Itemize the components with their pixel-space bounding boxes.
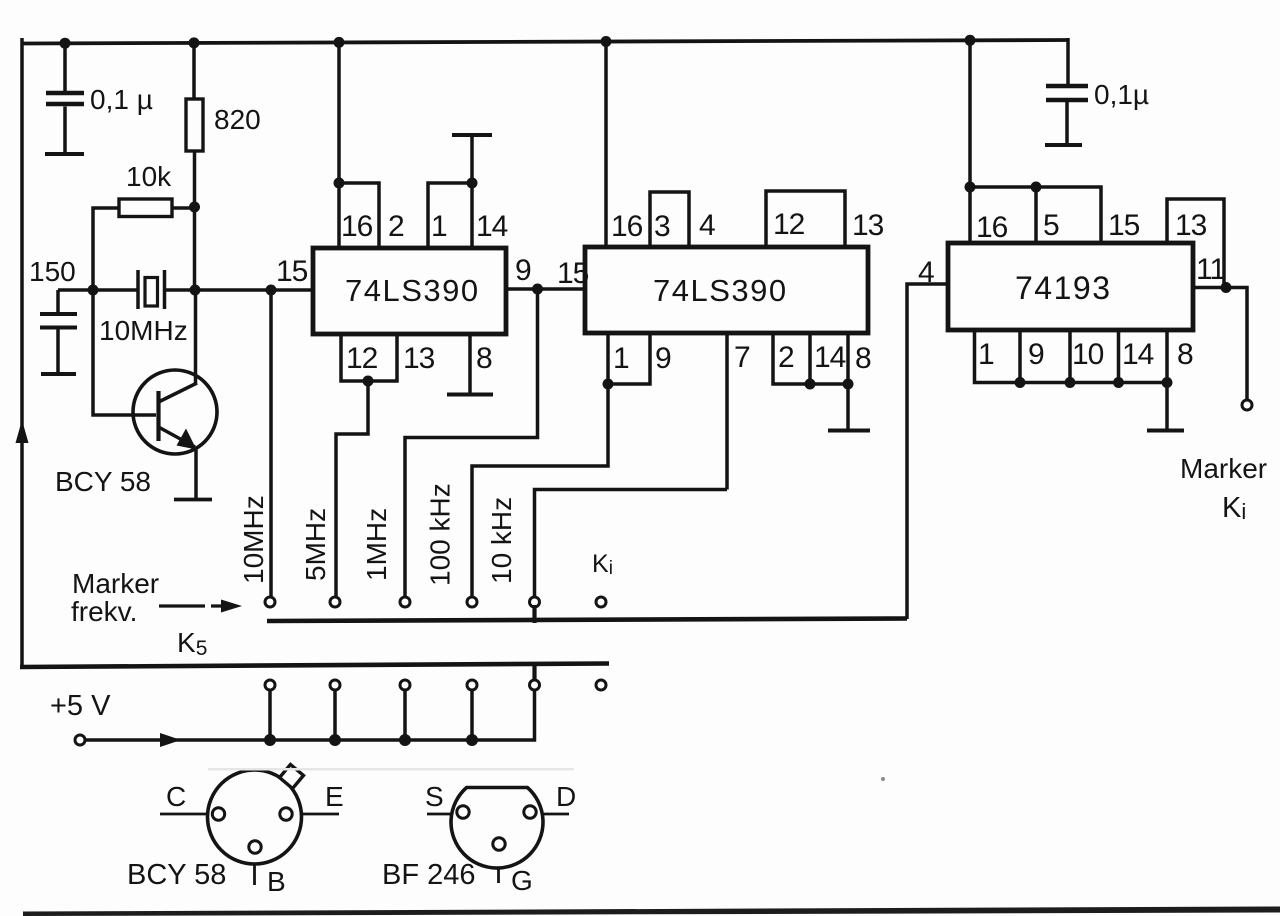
lead C [160, 813, 208, 816]
terminal circle row2 p2 [330, 680, 340, 690]
capacitor C2 150 [40, 290, 77, 374]
transistor case BF246 outline [451, 788, 543, 869]
node U3 pin9 dot [1015, 377, 1026, 388]
wire U2 pin12-pin13 loop [766, 191, 845, 247]
svg-text:9: 9 [515, 254, 531, 287]
svg-text:0,1 µ: 0,1 µ [90, 84, 153, 115]
scan noise smudge [208, 768, 574, 771]
node osc dot A [88, 285, 99, 296]
wire U1 pin8 [468, 334, 472, 393]
ground Q1 emitter [174, 498, 212, 502]
svg-text:2: 2 [388, 210, 404, 243]
terminal circle row2 p3 [400, 680, 410, 690]
svg-text:10MHz: 10MHz [238, 495, 269, 584]
rail bar above U1 pin14 [452, 133, 492, 137]
stub p1 [268, 690, 272, 740]
svg-text:16: 16 [976, 211, 1008, 244]
wire U3 pin13 loop [1167, 199, 1224, 288]
lead B [253, 864, 256, 885]
pad S [457, 806, 469, 818]
svg-text:10 kHz: 10 kHz [486, 497, 517, 584]
wire U2 pin3-pin4 loop [650, 192, 689, 247]
terminal circle 10MHz [265, 597, 275, 607]
wire U3 pin4 from K5 bus [907, 284, 948, 619]
svg-text:13: 13 [403, 342, 435, 375]
node U3 pin10 dot [1065, 377, 1076, 388]
node top rail dot 4 [601, 36, 612, 47]
wire U1 pin16-pin2 loop [339, 183, 379, 248]
node top rail dot 1 [60, 38, 71, 49]
node U3 pin16 dot [965, 182, 976, 193]
resistor R1 820 [186, 42, 203, 290]
svg-text:10MHz: 10MHz [99, 315, 188, 346]
terminal circle row2 p4 [467, 680, 477, 690]
svg-text:74LS390: 74LS390 [653, 273, 788, 308]
terminal +5V input circle [75, 735, 85, 745]
pad G [493, 838, 505, 850]
capacitor C3 0,1u right [1045, 38, 1088, 145]
pad E [280, 808, 292, 820]
node osc dot C [266, 285, 277, 296]
stub bus lower to +5V terminal [532, 664, 536, 681]
svg-text:100 kHz: 100 kHz [425, 483, 456, 586]
wire +5V rail [85, 690, 535, 740]
bus K5 upper (marker bus) [267, 619, 907, 622]
stub p4 [470, 690, 474, 740]
stub p3 [403, 690, 407, 740]
svg-text:150: 150 [29, 256, 76, 287]
node U2 pin14 dot [805, 379, 816, 390]
node top rail dot 5 [965, 35, 976, 46]
svg-text:9: 9 [655, 342, 671, 375]
bus lower [20, 664, 609, 668]
svg-text:15: 15 [557, 257, 589, 290]
svg-text:4: 4 [699, 209, 715, 242]
terminal circle row2 p6 [596, 680, 606, 690]
svg-text:1: 1 [613, 342, 629, 375]
wire U1 pin9 to U2 pin15 [506, 287, 585, 291]
wire U3 pin11 out [1193, 288, 1247, 401]
scan speck [881, 777, 885, 781]
node top rail dot 2 [189, 37, 200, 48]
wire U1 pin16 supply drop [337, 42, 341, 248]
wire 5MHz route [336, 381, 368, 598]
terminal circle 100kHz [467, 597, 477, 607]
svg-text:1: 1 [978, 338, 994, 371]
wire 10kHz route [535, 490, 728, 598]
svg-text:16: 16 [341, 210, 373, 243]
node U3 pin11 dot [1221, 282, 1232, 293]
svg-text:13: 13 [1175, 209, 1207, 242]
pad D [524, 806, 536, 818]
terminal circle row2 p1 [265, 680, 275, 690]
lead S [427, 813, 451, 816]
wire 10MHz column [269, 290, 273, 598]
arrow marker frekv [159, 604, 221, 607]
svg-text:15: 15 [276, 255, 308, 288]
IC U3 74193 body [948, 243, 1193, 330]
IC U2 74LS390 body [585, 247, 868, 333]
pad C [212, 808, 224, 820]
svg-text:frekv.: frekv. [71, 596, 137, 627]
svg-text:G: G [511, 865, 533, 896]
wire U3 pin16-pin5 loop [970, 187, 1036, 243]
terminal circle 10kHz [530, 597, 540, 607]
svg-text:8: 8 [1177, 338, 1193, 371]
transistor case BCY58 tab [280, 765, 304, 789]
bottom scan bar [23, 907, 1280, 916]
svg-text:11: 11 [1196, 253, 1225, 286]
node U3 pin5 dot [1031, 182, 1042, 193]
svg-text:12: 12 [346, 342, 378, 375]
svg-text:13: 13 [852, 209, 884, 242]
node U2 pin8 dot [843, 379, 854, 390]
svg-text:E: E [325, 781, 344, 812]
terminal circle 1MHz [400, 597, 410, 607]
svg-text:Marker: Marker [72, 568, 159, 599]
wire U1 pin1-pin14 loop [428, 183, 472, 248]
terminal circle 5MHz [330, 597, 340, 607]
stub p2 [333, 690, 337, 740]
svg-text:8: 8 [855, 342, 871, 375]
svg-text:10k: 10k [126, 161, 172, 192]
svg-text:3: 3 [654, 210, 670, 243]
wire top +5V rail [22, 40, 1068, 44]
transistor case BCY58 outline [208, 770, 302, 864]
svg-text:15: 15 [1108, 209, 1140, 242]
transistor Q1 BCY58 [133, 370, 217, 454]
wire emitter [194, 447, 198, 498]
lead D [543, 813, 569, 816]
svg-text:Marker: Marker [1180, 453, 1267, 484]
svg-text:10: 10 [1072, 338, 1104, 371]
ground U2 pin8 [828, 429, 870, 433]
arrow +5V [160, 733, 181, 747]
svg-text:14: 14 [814, 341, 846, 374]
svg-text:9: 9 [1028, 338, 1044, 371]
svg-text:74LS390: 74LS390 [345, 273, 480, 308]
node U2 pin1 loop dot [603, 379, 614, 390]
ground U1 pin8 [447, 393, 493, 397]
svg-text:8: 8 [476, 342, 492, 375]
wire U2 pin8 ground drop [846, 384, 850, 429]
wire U3 pin5-pin15 loop [1036, 187, 1101, 243]
wire U1 pin14 stub up [470, 136, 474, 183]
wire U2 pin7 [725, 333, 729, 490]
svg-text:5MHz: 5MHz [300, 508, 331, 581]
svg-text:C: C [166, 781, 186, 812]
svg-text:BCY 58: BCY 58 [127, 859, 226, 891]
svg-text:5: 5 [1043, 209, 1059, 242]
svg-text:14: 14 [1122, 338, 1154, 371]
capacitor C1 0,1u left [45, 43, 84, 154]
wire left edge vertical [20, 38, 24, 667]
svg-text:7: 7 [734, 341, 750, 374]
node +5V dot 1 [264, 734, 276, 746]
svg-text:BF 246: BF 246 [382, 859, 476, 891]
wire U2 pin2-pin14-pin8 loop [773, 333, 848, 384]
node +5V dot 2 [329, 734, 341, 746]
node U1 pin16 dot [334, 178, 345, 189]
wire 100kHz route [472, 384, 608, 598]
svg-text:BCY 58: BCY 58 [55, 466, 151, 497]
svg-text:820: 820 [214, 104, 261, 135]
svg-text:2: 2 [778, 341, 794, 374]
wire oscillator node horizontal [58, 288, 313, 292]
svg-text:B: B [267, 866, 286, 897]
resistor R2 10k [93, 199, 195, 290]
terminal Marker Ki output circle [1242, 400, 1252, 410]
svg-text:14: 14 [476, 210, 508, 243]
wire U3 pin8 ground drop [1165, 383, 1169, 430]
wire U3 bottom pins comb [975, 330, 1168, 383]
lead E [301, 813, 339, 816]
wire base feed [93, 290, 156, 415]
node +5V dot 3 [399, 734, 411, 746]
svg-text:+5 V: +5 V [50, 690, 111, 722]
crystal X1 10MHz [138, 270, 165, 309]
svg-text:1MHz: 1MHz [361, 508, 392, 581]
svg-text:16: 16 [611, 210, 643, 243]
node osc dot B [190, 285, 201, 296]
IC U1 74LS390 body [313, 248, 506, 334]
wire U2 pin1-pin9 loop [608, 333, 650, 384]
node U3 pin14 dot [1113, 377, 1124, 388]
lead G [497, 868, 500, 883]
terminal circle row2 p5 [530, 680, 540, 690]
pad B [249, 841, 261, 853]
svg-text:1: 1 [431, 210, 447, 243]
wire U3 pin16 supply drop [968, 40, 972, 243]
arrow up on left wire [16, 420, 29, 443]
node R1/R2 junction [189, 202, 200, 213]
node U1 pin12 loop dot [363, 376, 374, 387]
svg-text:12: 12 [773, 208, 805, 241]
node U3 pin8 dot [1162, 377, 1173, 388]
svg-text:D: D [556, 781, 576, 812]
svg-text:S: S [425, 781, 444, 812]
wire U1 pin12-pin13 loop [341, 334, 397, 381]
wire U2 pin16 supply drop [604, 41, 608, 247]
node top rail dot 3 [334, 37, 345, 48]
terminal circle Ki [596, 597, 606, 607]
stub 10kHz terminal to bus [532, 605, 536, 623]
node 1MHz tap dot [532, 284, 543, 295]
svg-text:74193: 74193 [1015, 270, 1111, 306]
svg-text:0,1µ: 0,1µ [1094, 79, 1149, 110]
node U1 pin14 dot [467, 178, 478, 189]
node +5V dot 4 [466, 734, 478, 746]
ground U3 pin8 [1147, 429, 1184, 433]
wire collector [194, 290, 198, 384]
wire 1MHz route [405, 289, 538, 598]
